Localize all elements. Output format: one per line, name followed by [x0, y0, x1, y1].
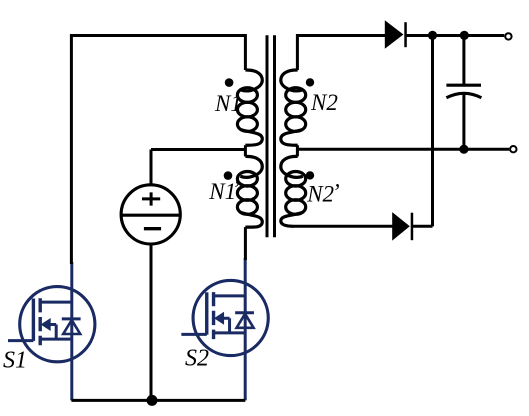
svg-text:’: ’	[332, 180, 340, 205]
svg-text:S2: S2	[185, 346, 209, 372]
svg-text:S1: S1	[3, 348, 27, 374]
svg-text:N1: N1	[214, 91, 242, 116]
svg-text:N2: N2	[306, 182, 334, 207]
svg-text:N2: N2	[310, 90, 338, 115]
svg-text:’: ’	[232, 176, 240, 201]
